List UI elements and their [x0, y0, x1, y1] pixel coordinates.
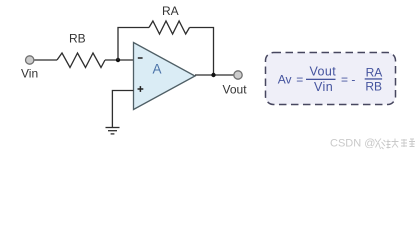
node A junction dot — [116, 58, 120, 62]
formula box — [266, 53, 396, 105]
svg-text:Av: Av — [278, 73, 292, 87]
watermark CJK glyph blocks — [375, 139, 415, 150]
wire node A up to feedback — [118, 28, 149, 61]
svg-text:RB: RB — [69, 32, 86, 46]
svg-text:CSDN @: CSDN @ — [330, 138, 375, 150]
op-amp U1 triangle — [134, 43, 196, 110]
svg-text:RA: RA — [366, 65, 383, 79]
wire RB to op-amp inverting input — [105, 59, 134, 61]
op-amp minus sign — [138, 57, 143, 59]
op-amp plus sign — [138, 86, 144, 92]
svg-text:= -: = - — [341, 73, 355, 87]
svg-text:Vin: Vin — [21, 67, 38, 81]
wire plus input to ground — [112, 91, 133, 128]
resistor RB — [57, 53, 105, 68]
ground — [106, 128, 120, 134]
wire op-amp output to Vout — [195, 74, 234, 76]
formula fraction RA/RB — [365, 65, 383, 93]
svg-text:A: A — [153, 62, 162, 77]
wire Vin to RB — [34, 59, 57, 61]
wire RA to output node — [190, 28, 214, 76]
node B output junction dot — [211, 73, 215, 77]
svg-text:=: = — [296, 73, 303, 87]
svg-text:RB: RB — [365, 79, 382, 93]
svg-text:RA: RA — [162, 4, 179, 18]
terminal Vin — [26, 56, 34, 64]
resistor RA — [149, 21, 190, 34]
svg-text:Vin: Vin — [314, 80, 333, 94]
svg-text:Vout: Vout — [310, 65, 337, 79]
formula fraction Vout/Vin — [306, 65, 336, 94]
terminal Vout — [234, 71, 242, 79]
svg-text:Vout: Vout — [223, 83, 248, 97]
